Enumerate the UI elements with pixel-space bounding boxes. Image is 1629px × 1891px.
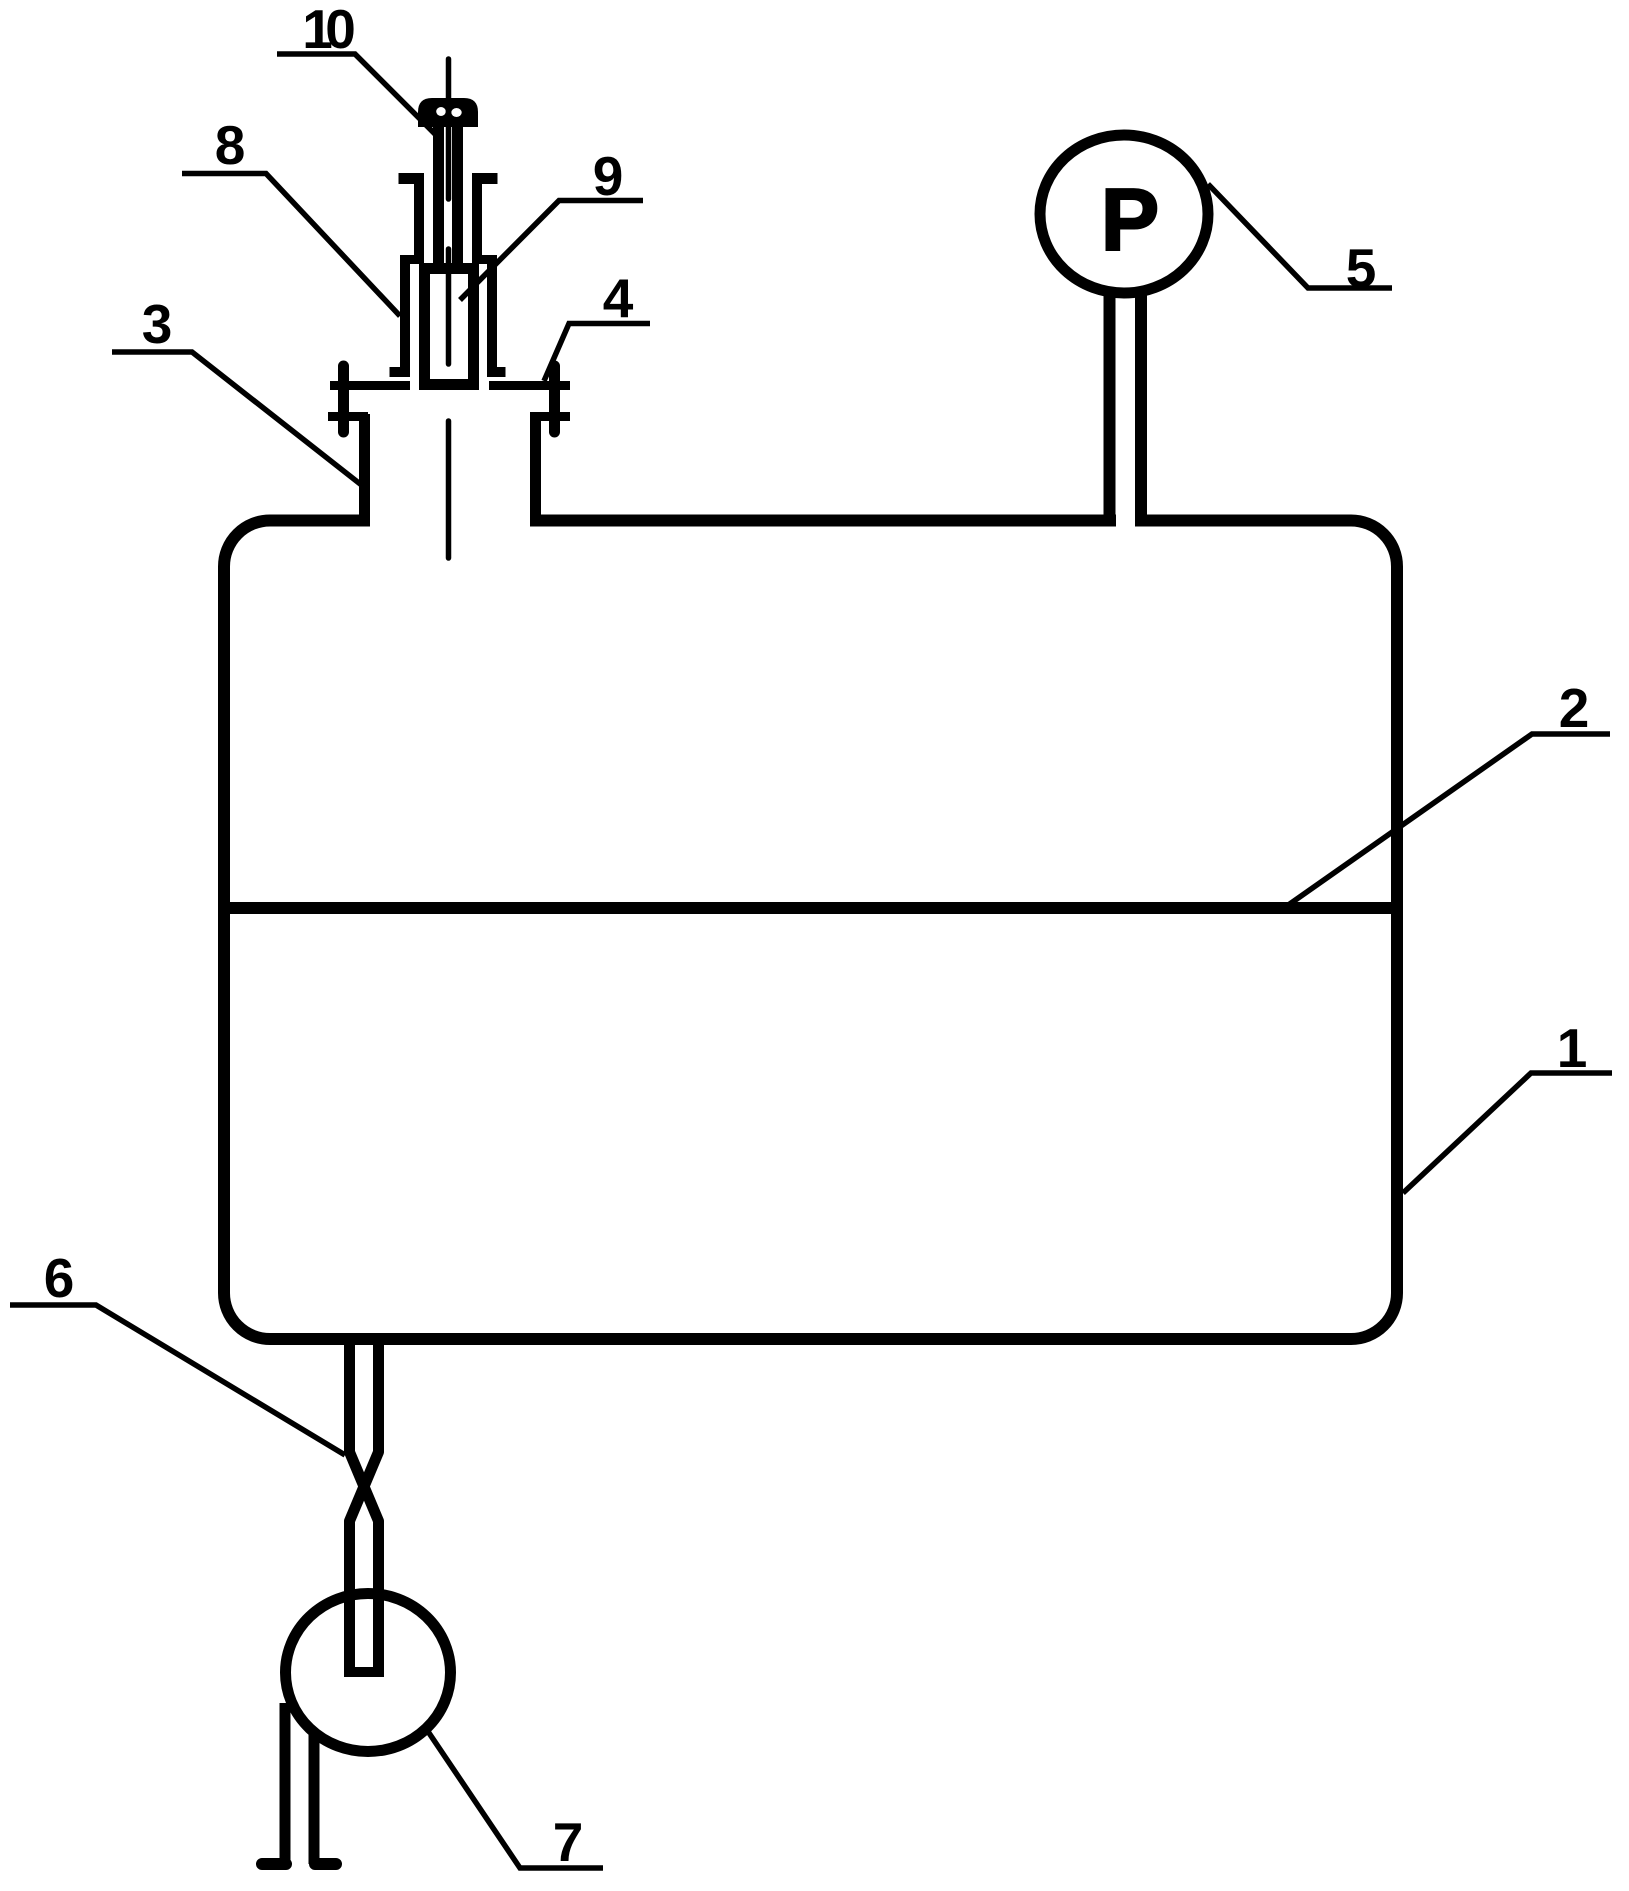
svg-text:2: 2 (1559, 677, 1590, 739)
svg-text:3: 3 (142, 293, 173, 355)
svg-text:6: 6 (44, 1247, 75, 1309)
svg-text:0: 0 (325, 0, 356, 60)
svg-text:7: 7 (553, 1811, 584, 1873)
svg-text:P: P (1101, 170, 1160, 269)
svg-text:1: 1 (1557, 1017, 1588, 1079)
svg-text:5: 5 (1346, 237, 1377, 299)
svg-text:4: 4 (603, 267, 634, 329)
svg-text:9: 9 (593, 145, 624, 207)
svg-text:8: 8 (215, 114, 246, 176)
